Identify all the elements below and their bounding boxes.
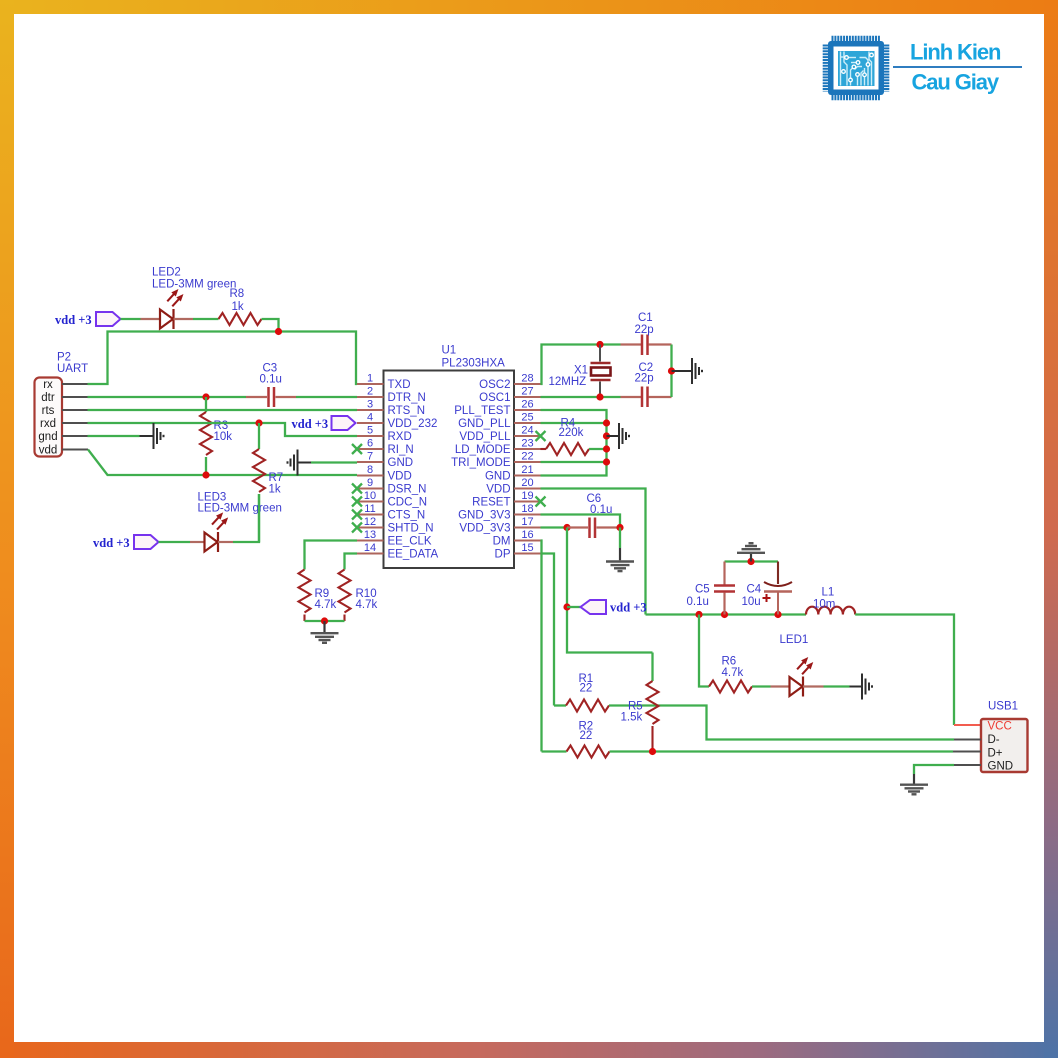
- U1 pin 24 VDD_PLL: [459, 425, 540, 444]
- svg-text:18: 18: [521, 503, 533, 515]
- wire vdd+3 to LED2: [121, 318, 141, 320]
- svg-text:vdd +3: vdd +3: [292, 417, 329, 431]
- svg-text:R8: R8: [230, 288, 245, 300]
- no-connect X pin 19 RESET: [536, 497, 546, 507]
- svg-text:22p: 22p: [635, 373, 654, 385]
- svg-text:RTS_N: RTS_N: [388, 405, 426, 417]
- svg-text:vdd +3: vdd +3: [55, 313, 92, 327]
- svg-text:9: 9: [367, 477, 373, 489]
- ground crystal: [692, 358, 702, 384]
- U1 pin 4 VDD_232: [357, 412, 437, 431]
- junction node vdd flag: [563, 603, 570, 610]
- svg-text:12MHZ: 12MHZ: [549, 376, 587, 388]
- svg-text:CTS_N: CTS_N: [388, 510, 426, 522]
- junction node top ground: [747, 558, 754, 565]
- wire EE_DATA to R10: [345, 554, 358, 570]
- U1 pin 17 VDD_3V3: [459, 516, 540, 535]
- wire C3 to DTR_N: [296, 396, 357, 398]
- svg-text:VCC: VCC: [988, 721, 1012, 733]
- svg-text:USB1: USB1: [988, 701, 1018, 713]
- no-connect X pin 6 RI_N: [352, 444, 362, 454]
- svg-text:R6: R6: [722, 656, 737, 668]
- svg-text:4: 4: [367, 412, 373, 424]
- svg-text:10: 10: [364, 490, 376, 502]
- USB1 pin stub GND: [954, 764, 981, 766]
- U1 pin 21 GND: [485, 464, 541, 483]
- U1 pin 3 RTS_N: [357, 399, 425, 418]
- U1 pin 6 RI_N: [357, 438, 414, 457]
- U1 pin 11 CTS_N: [357, 503, 425, 522]
- border frame right: [1044, 0, 1058, 1058]
- svg-text:DSR_N: DSR_N: [388, 484, 427, 496]
- resistor R4: [541, 443, 607, 455]
- svg-text:DM: DM: [493, 536, 511, 548]
- no-connect X pin 9 DSR_N: [352, 484, 362, 494]
- wire C6 left down to R5 branch: [567, 528, 653, 653]
- junction node OSC1 X1: [596, 393, 603, 400]
- svg-text:PLL_TEST: PLL_TEST: [454, 405, 510, 417]
- svg-text:VDD: VDD: [388, 471, 412, 483]
- svg-text:GND_3V3: GND_3V3: [458, 510, 510, 522]
- svg-text:RESET: RESET: [472, 497, 510, 509]
- svg-text:CDC_N: CDC_N: [388, 497, 428, 509]
- resistor R10: [339, 570, 351, 622]
- svg-text:D+: D+: [988, 748, 1003, 760]
- junction node OSC2 X1: [596, 341, 603, 348]
- svg-text:LED2: LED2: [152, 267, 181, 279]
- svg-text:GND: GND: [988, 761, 1014, 773]
- svg-text:13: 13: [364, 529, 376, 541]
- capacitor C1: [621, 335, 672, 356]
- svg-text:7: 7: [367, 451, 373, 463]
- wire LED1 ground stub: [850, 686, 862, 688]
- svg-text:GND: GND: [485, 471, 511, 483]
- wire dtr net to C3: [88, 396, 247, 398]
- logo divider line: [893, 66, 1022, 68]
- wire R8 to node: [262, 319, 279, 332]
- U1 pin 9 DSR_N: [357, 477, 426, 496]
- svg-text:15: 15: [521, 542, 533, 554]
- wire EE_CLK to R9: [305, 541, 358, 570]
- svg-text:24: 24: [521, 425, 533, 437]
- svg-text:U1: U1: [442, 345, 457, 357]
- svg-text:LD_MODE: LD_MODE: [455, 444, 511, 456]
- svg-text:EE_DATA: EE_DATA: [388, 549, 439, 561]
- wire vdd rail left of L1: [646, 613, 807, 615]
- wire R9 R10 bottoms: [305, 620, 345, 622]
- svg-text:1: 1: [367, 373, 373, 385]
- svg-text:2: 2: [367, 386, 373, 398]
- U1 pin 10 CDC_N: [357, 490, 427, 509]
- wire vdd+3 to LED3: [159, 541, 191, 543]
- power flag vdd+3 LED3: [93, 535, 159, 550]
- svg-text:0.1u: 0.1u: [687, 596, 709, 608]
- resistor R8: [219, 313, 262, 325]
- no-connect X pin 24 VDD_PLL: [536, 431, 546, 441]
- svg-text:TXD: TXD: [388, 379, 411, 391]
- svg-text:L1: L1: [822, 587, 835, 599]
- svg-text:rts: rts: [42, 405, 55, 417]
- svg-text:23: 23: [521, 438, 533, 450]
- wire VCC pin stub: [954, 724, 981, 726]
- svg-text:dtr: dtr: [41, 392, 55, 404]
- wire OSC2 to crystal rail: [541, 345, 621, 385]
- svg-text:4.7k: 4.7k: [722, 667, 744, 679]
- junction node R4 right: [603, 445, 610, 452]
- no-connect X pin 11 CTS_N: [352, 510, 362, 520]
- junction node C6 left: [563, 524, 570, 531]
- capacitor C3: [246, 387, 296, 407]
- U1 pin 15 DP: [495, 542, 541, 561]
- svg-text:VDD_232: VDD_232: [388, 418, 438, 430]
- power flag vdd+3 LED2: [55, 312, 121, 327]
- wire pin7 GND to ground: [311, 461, 357, 463]
- wire DP down to R1 row: [541, 554, 555, 706]
- U1 pin 25 GND_PLL: [458, 412, 540, 431]
- wire VDD_3V3 to C6 left: [541, 526, 568, 528]
- logo chip icon: [825, 38, 886, 97]
- resistor R3: [200, 397, 212, 475]
- wire LED1 to ground: [824, 685, 850, 687]
- wire DM down to R2 row: [541, 541, 542, 752]
- LED D3 symbol: [190, 513, 233, 552]
- svg-text:VDD_3V3: VDD_3V3: [459, 523, 510, 535]
- wire DM corner to R2: [542, 750, 567, 752]
- svg-text:vdd +3: vdd +3: [93, 536, 130, 550]
- svg-text:4.7k: 4.7k: [356, 599, 378, 611]
- ground C6: [606, 562, 634, 572]
- svg-text:22: 22: [580, 730, 593, 742]
- border frame top: [0, 0, 1058, 14]
- crystal X1: [591, 345, 611, 398]
- svg-text:GND: GND: [388, 457, 414, 469]
- wire rail to VCC: [855, 615, 954, 726]
- ground P2 gnd: [140, 423, 164, 449]
- U1 pin 22 TRI_MODE: [451, 451, 540, 470]
- resistor R5: [647, 653, 659, 752]
- U1 pin 19 RESET: [472, 490, 540, 509]
- wire R2 to D+: [610, 750, 954, 752]
- resistor R9: [299, 570, 311, 622]
- svg-text:3: 3: [367, 399, 373, 411]
- junction node R9 R10 ground: [321, 617, 328, 624]
- P2 pin stub rx: [62, 383, 88, 385]
- junction node R8/rx: [275, 328, 282, 335]
- svg-text:17: 17: [521, 516, 533, 528]
- junction node R5 bottom: [649, 748, 656, 755]
- svg-text:6: 6: [367, 438, 373, 450]
- junction node crystal ground: [668, 367, 675, 374]
- U1 pin 26 PLL_TEST: [454, 399, 540, 418]
- U1 pin 7 GND: [357, 451, 413, 470]
- wire gnd net: [88, 435, 140, 437]
- resistor R6: [709, 681, 752, 693]
- ground R9 R10: [311, 621, 339, 643]
- svg-text:1k: 1k: [232, 301, 244, 313]
- svg-text:vdd +3: vdd +3: [610, 601, 647, 615]
- svg-text:X1: X1: [574, 365, 588, 377]
- wire TRI_MODE: [541, 461, 607, 463]
- wire rxd net to RXD: [88, 423, 358, 436]
- svg-text:PL2303HXA: PL2303HXA: [442, 358, 506, 370]
- resistor R7: [253, 423, 265, 542]
- wire VDD pin20 down to rail: [541, 489, 646, 615]
- junction node C4 bottom: [774, 611, 781, 618]
- junction node R3 bottom: [202, 471, 209, 478]
- svg-text:R7: R7: [269, 472, 284, 484]
- svg-text:20: 20: [521, 477, 533, 489]
- capacitor C2: [621, 387, 672, 408]
- svg-text:rx: rx: [43, 379, 53, 391]
- ground LED1: [862, 674, 872, 700]
- svg-text:21: 21: [521, 464, 533, 476]
- P2 pin stub rts: [62, 409, 88, 411]
- svg-text:C4: C4: [747, 584, 762, 596]
- svg-text:gnd: gnd: [38, 431, 57, 443]
- wire R6 branch down: [699, 615, 709, 687]
- svg-text:C1: C1: [638, 312, 653, 324]
- capacitor C4 polarized: [763, 562, 793, 615]
- svg-text:11: 11: [364, 503, 375, 515]
- svg-text:vdd: vdd: [39, 445, 58, 457]
- svg-text:rxd: rxd: [40, 418, 56, 430]
- wire GND_PLL: [541, 422, 607, 424]
- inductor L1: [806, 607, 855, 615]
- svg-text:10m: 10m: [813, 599, 835, 611]
- power flag vdd+3 VDD_232: [292, 416, 356, 431]
- svg-text:D-: D-: [988, 734, 1000, 746]
- svg-text:EE_CLK: EE_CLK: [388, 536, 432, 548]
- wire rx net to TXD: [88, 332, 358, 385]
- svg-text:DTR_N: DTR_N: [388, 392, 426, 404]
- wire flag stub: [567, 606, 581, 608]
- USB1 pin stub D+: [953, 751, 981, 753]
- U1 pin 28 OSC2: [479, 373, 540, 392]
- svg-text:10k: 10k: [214, 431, 233, 443]
- svg-text:VDD_PLL: VDD_PLL: [459, 431, 511, 443]
- svg-text:12: 12: [364, 516, 376, 528]
- wire R1 to D-: [609, 706, 954, 740]
- border frame bottom: [0, 1042, 1058, 1058]
- svg-text:OSC2: OSC2: [479, 379, 510, 391]
- junction node TRI_MODE: [603, 458, 610, 465]
- svg-text:5: 5: [367, 425, 373, 437]
- svg-text:VDD: VDD: [486, 484, 510, 496]
- wire rts net to RTS_N: [88, 409, 358, 411]
- USB1 pin stub D-: [954, 739, 981, 741]
- U1 pin 23 LD_MODE: [455, 438, 541, 457]
- wire to R4 ground: [607, 435, 619, 437]
- P2 pin stub rxd: [62, 422, 88, 424]
- svg-text:19: 19: [521, 490, 533, 502]
- svg-text:Cau Giay: Cau Giay: [912, 70, 1000, 95]
- wire USB ground stem: [913, 774, 915, 784]
- wire GND_3V3 to C6 right: [541, 515, 621, 528]
- wire LED3 to R7 bottom: [233, 494, 259, 542]
- U1 pin 27 OSC1: [479, 386, 540, 405]
- no-connect X pin 10 CDC_N: [352, 497, 362, 507]
- wire vdd net to VDD pin8: [88, 450, 357, 476]
- ground R4: [619, 423, 629, 449]
- wire C6 to ground: [619, 528, 621, 549]
- svg-text:C5: C5: [695, 584, 710, 596]
- svg-text:LED-3MM green: LED-3MM green: [152, 279, 236, 291]
- no-connect X pin 12 SHTD_N: [352, 523, 362, 533]
- svg-text:GND_PLL: GND_PLL: [458, 418, 511, 430]
- capacitor C5: [714, 562, 735, 615]
- ground USB: [900, 785, 928, 795]
- svg-text:10u: 10u: [742, 596, 761, 608]
- junction node R3 top: [202, 393, 209, 400]
- border frame left: [0, 0, 14, 1058]
- wire PLL_TEST loop to GND pin21: [541, 410, 607, 476]
- junction node C6 right: [616, 524, 623, 531]
- junction node R6 branch: [695, 611, 702, 618]
- LED D1 symbol: [771, 658, 824, 697]
- svg-text:25: 25: [521, 412, 533, 424]
- P2 pin stub gnd: [62, 435, 88, 437]
- svg-text:16: 16: [521, 529, 533, 541]
- svg-text:SHTD_N: SHTD_N: [388, 523, 434, 535]
- svg-text:Linh Kien: Linh Kien: [910, 40, 1001, 65]
- U1 pin 13 EE_CLK: [357, 529, 432, 548]
- junction node ground branch: [603, 432, 610, 439]
- U1 pin 8 VDD: [357, 464, 412, 483]
- U1 pin 14 EE_DATA: [357, 542, 439, 561]
- svg-text:4.7k: 4.7k: [315, 599, 337, 611]
- svg-text:8: 8: [367, 464, 373, 476]
- svg-text:1.5k: 1.5k: [621, 712, 643, 724]
- junction node R7 top: [255, 419, 262, 426]
- U1 pin 5 RXD: [357, 425, 412, 444]
- U1 pin 16 DM: [493, 529, 541, 548]
- svg-text:TRI_MODE: TRI_MODE: [451, 457, 511, 469]
- svg-text:14: 14: [364, 542, 376, 554]
- U1 pin 18 GND_3V3: [458, 503, 540, 522]
- power flag vdd+3 main: [581, 600, 647, 615]
- wire LED2 to R8: [193, 318, 219, 320]
- U1 pin 12 SHTD_N: [357, 516, 434, 535]
- svg-text:220k: 220k: [559, 427, 584, 439]
- junction node GND_PLL: [603, 419, 610, 426]
- P2 pin stub vdd: [62, 449, 88, 451]
- svg-text:22p: 22p: [635, 324, 654, 336]
- ground above C5 C4: [737, 543, 765, 561]
- svg-text:OSC1: OSC1: [479, 392, 510, 404]
- svg-text:UART: UART: [57, 363, 88, 375]
- U1 pin 1 TXD: [357, 373, 411, 392]
- resistor R2: [567, 746, 610, 758]
- junction node C5 bottom: [721, 611, 728, 618]
- svg-text:22: 22: [521, 451, 533, 463]
- wire C5 C4 top rail: [725, 560, 779, 562]
- P2 pin stub dtr: [62, 396, 88, 398]
- op-amp? no: IC U1 PL2303HXA body: [384, 371, 515, 569]
- svg-text:22: 22: [580, 683, 593, 695]
- svg-text:0.1u: 0.1u: [260, 374, 282, 386]
- connector USB1 body: [981, 719, 1028, 773]
- svg-text:LED1: LED1: [780, 634, 809, 646]
- capacitor C6: [567, 518, 620, 539]
- svg-text:RXD: RXD: [388, 431, 412, 443]
- wire C1 C2 right vertical: [670, 345, 672, 398]
- svg-text:1k: 1k: [269, 484, 281, 496]
- svg-text:LED-3MM green: LED-3MM green: [198, 503, 282, 515]
- svg-text:P2: P2: [57, 352, 71, 364]
- wire DP corner to R1: [554, 704, 566, 706]
- svg-text:DP: DP: [495, 549, 511, 561]
- LED D2 symbol: [141, 290, 194, 329]
- svg-text:28: 28: [521, 373, 533, 385]
- ground pin7 GND: [288, 450, 312, 476]
- svg-text:26: 26: [521, 399, 533, 411]
- resistor R1: [566, 700, 609, 712]
- svg-text:27: 27: [521, 386, 533, 398]
- wire USB GND: [914, 765, 954, 774]
- svg-text:0.1u: 0.1u: [590, 504, 612, 516]
- wire OSC1 to C2: [541, 396, 621, 398]
- U1 pin 20 VDD: [486, 477, 540, 496]
- U1 pin 2 DTR_N: [357, 386, 426, 405]
- svg-text:RI_N: RI_N: [388, 444, 414, 456]
- connector P2 body: [35, 378, 63, 457]
- wire R6 to LED1: [752, 685, 771, 687]
- wire to crystal ground: [672, 370, 692, 372]
